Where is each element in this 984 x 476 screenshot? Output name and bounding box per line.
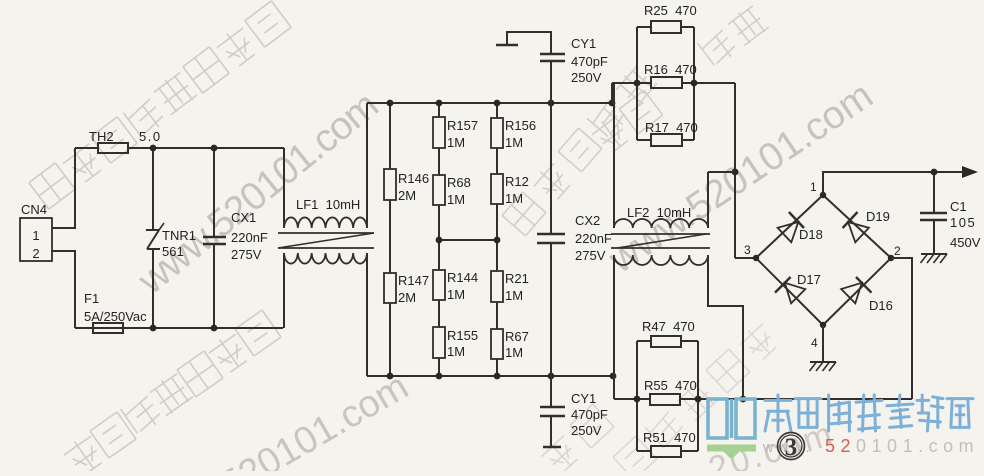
svg-text:1M: 1M <box>447 135 465 150</box>
svg-text:R47 470: R47 470 <box>642 319 695 334</box>
svg-text:4: 4 <box>811 336 818 350</box>
svg-text:R25 470: R25 470 <box>644 3 697 18</box>
svg-text:1M: 1M <box>447 287 465 302</box>
svg-text:TH2: TH2 <box>89 129 114 144</box>
svg-text:220nF: 220nF <box>231 230 268 245</box>
svg-text:R21: R21 <box>505 271 529 286</box>
svg-text:1M: 1M <box>447 344 465 359</box>
svg-text:R55 470: R55 470 <box>644 378 697 393</box>
svg-text:CX2: CX2 <box>575 213 600 228</box>
svg-text:3: 3 <box>785 434 798 461</box>
svg-text:C1: C1 <box>950 199 967 214</box>
svg-text:5.0: 5.0 <box>139 129 162 144</box>
svg-text:LF1 10mH: LF1 10mH <box>296 197 360 212</box>
svg-text:CN4: CN4 <box>21 202 47 217</box>
svg-text:2: 2 <box>32 246 39 261</box>
svg-text:D18: D18 <box>799 227 823 242</box>
svg-text:561: 561 <box>162 244 184 259</box>
svg-text:R147: R147 <box>398 273 429 288</box>
svg-text:470pF: 470pF <box>571 54 608 69</box>
svg-text:250V: 250V <box>571 70 602 85</box>
svg-text:R16 470: R16 470 <box>644 62 697 77</box>
svg-text:R157: R157 <box>447 118 478 133</box>
svg-text:450V: 450V <box>950 235 981 250</box>
svg-text:R146: R146 <box>398 171 429 186</box>
svg-text:R67: R67 <box>505 329 529 344</box>
svg-text:1: 1 <box>810 180 817 194</box>
svg-text:TNR1: TNR1 <box>162 228 196 243</box>
svg-text:R144: R144 <box>447 270 478 285</box>
svg-text:CY1: CY1 <box>571 391 596 406</box>
svg-text:D16: D16 <box>869 298 893 313</box>
svg-text:250V: 250V <box>571 423 602 438</box>
svg-text:3: 3 <box>744 243 751 257</box>
svg-text:R155: R155 <box>447 328 478 343</box>
svg-text:F1: F1 <box>84 291 99 306</box>
svg-text:1M: 1M <box>447 192 465 207</box>
svg-text:1M: 1M <box>505 345 523 360</box>
svg-text:D17: D17 <box>797 272 821 287</box>
svg-text:1: 1 <box>32 228 39 243</box>
svg-text:CX1: CX1 <box>231 210 256 225</box>
svg-text:1M: 1M <box>505 288 523 303</box>
svg-text:R17 470: R17 470 <box>645 120 698 135</box>
svg-text:5A/250Vac: 5A/250Vac <box>84 309 147 324</box>
svg-text:1M: 1M <box>505 191 523 206</box>
svg-text:R68: R68 <box>447 175 471 190</box>
svg-text:R51 470: R51 470 <box>643 430 696 445</box>
svg-text:2M: 2M <box>398 290 416 305</box>
svg-text:LF2 10mH: LF2 10mH <box>627 205 691 220</box>
svg-text:R156: R156 <box>505 118 536 133</box>
svg-text:220nF: 220nF <box>575 231 612 246</box>
svg-text:520101.com: 520101.com <box>825 436 979 456</box>
svg-text:470pF: 470pF <box>571 407 608 422</box>
svg-text:1M: 1M <box>505 135 523 150</box>
svg-text:105: 105 <box>950 215 976 230</box>
svg-text:R12: R12 <box>505 174 529 189</box>
svg-text:D19: D19 <box>866 209 890 224</box>
svg-text:CY1: CY1 <box>571 36 596 51</box>
svg-text:275V: 275V <box>575 248 606 263</box>
svg-text:2: 2 <box>894 244 901 258</box>
svg-text:2M: 2M <box>398 188 416 203</box>
svg-text:275V: 275V <box>231 247 262 262</box>
